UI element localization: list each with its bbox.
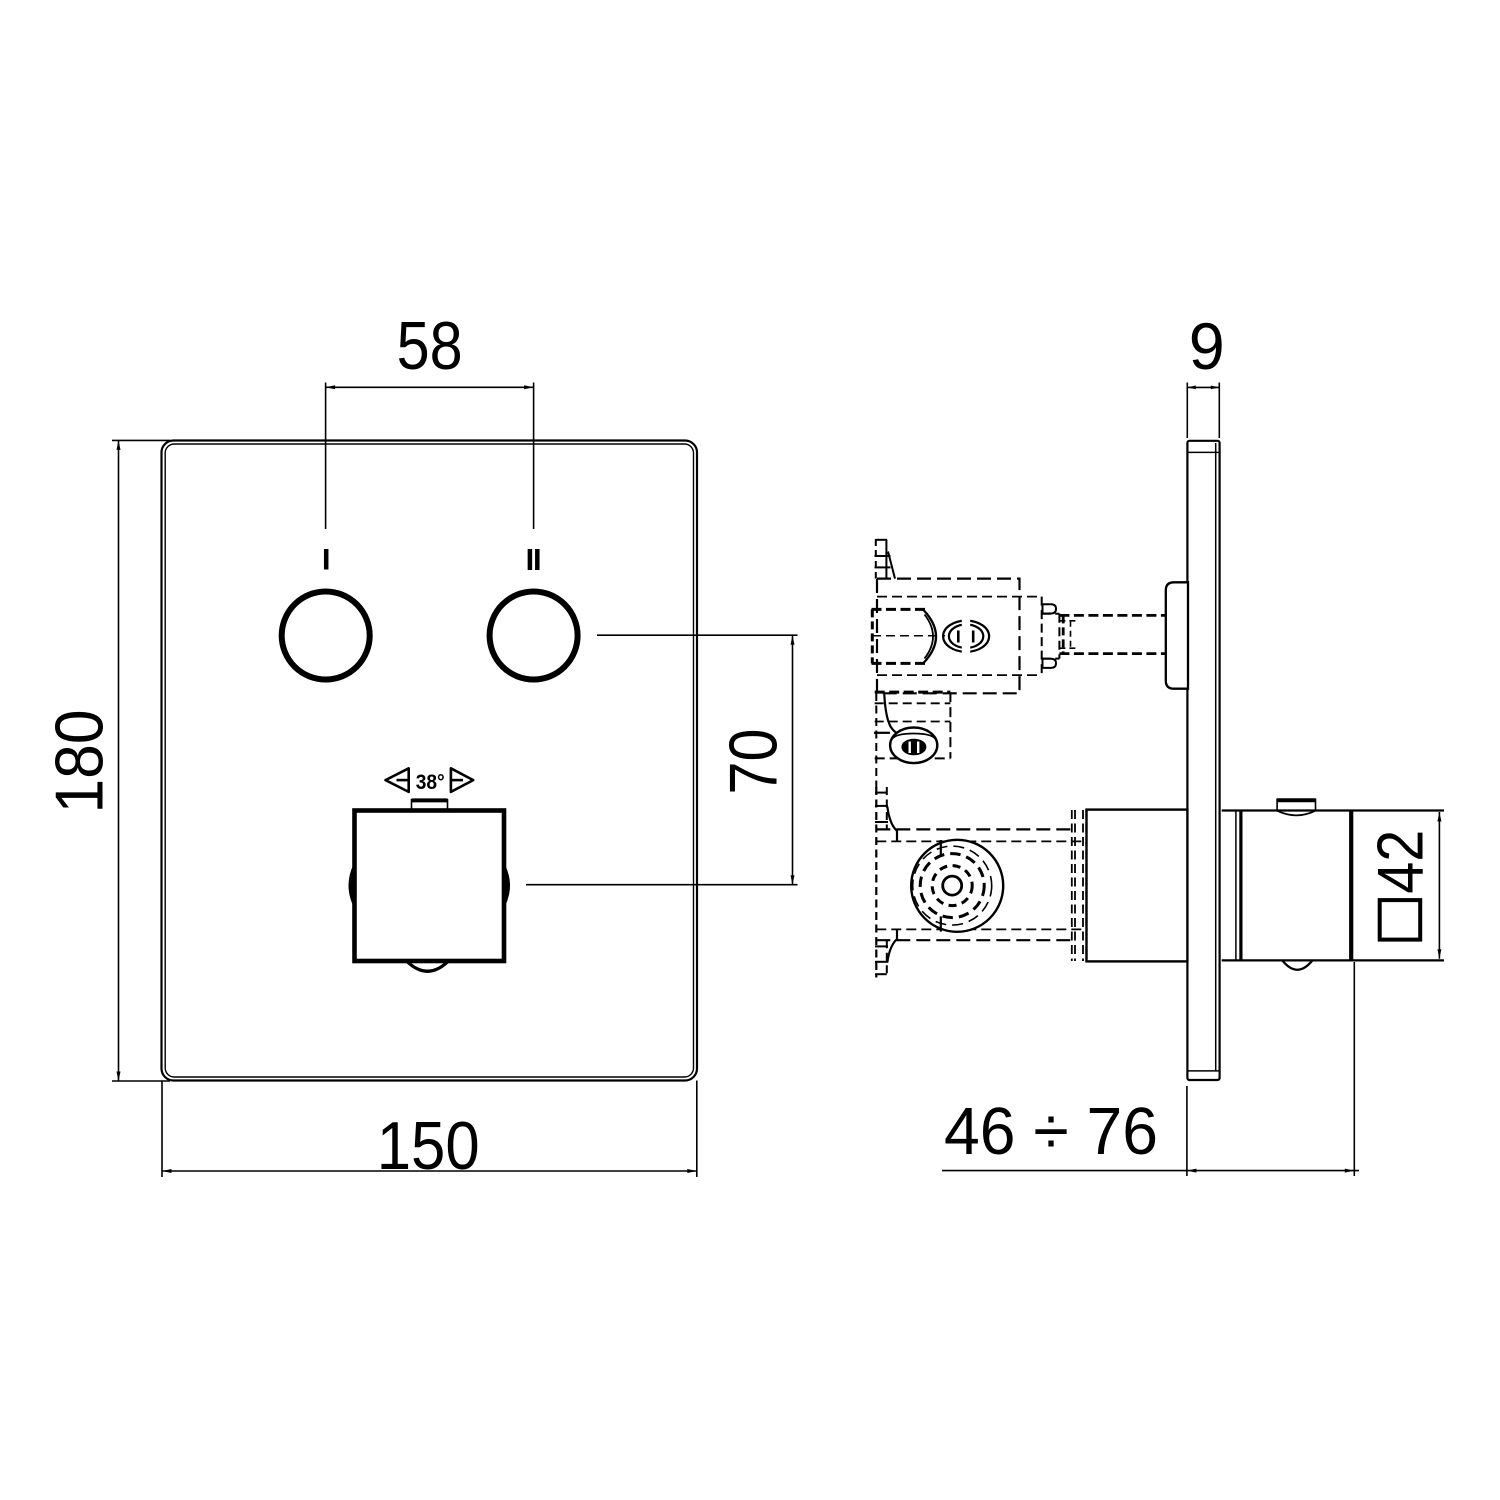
dimension 180 extension top [112,439,170,441]
cartridge centerline [872,635,945,637]
cartridge dome arcs [924,610,937,663]
wall plate side view [1187,441,1219,1080]
oval union fitting [943,621,989,652]
stem flange at plate [1166,582,1188,688]
svg-text:9: 9 [1189,309,1225,383]
dashed circle bold outer [920,854,984,918]
dimension 9 line [1187,386,1219,388]
valve dome [911,840,1003,932]
dimension 70 arrow bottom [791,875,795,885]
dimension 9 arrow right [1211,386,1220,390]
handle bottom ear arc [1282,961,1312,970]
knob circle II [490,592,578,680]
svg-text:180: 180 [41,710,117,814]
dimension 42 line [1438,812,1440,959]
label II ticks [528,549,533,570]
upper valve body inner bore lines [877,596,1042,598]
dimension 58 arrow left [326,385,336,389]
dimension 70 line [792,635,794,885]
upper mounting bracket [875,539,877,579]
svg-text:70: 70 [716,729,792,795]
dimension 180 line [118,440,120,1081]
dimension 58 extension line right [533,383,535,530]
dimension 9 extension lines [1186,383,1188,439]
handle front face [1349,812,1353,960]
bracket gusset bottom [887,929,897,962]
38 degree marker left triangle [386,768,409,792]
interface solid tab bottom [1043,659,1057,668]
union nut [890,728,937,764]
handle bottom edge + 42 extension [1222,959,1444,961]
temperature knob bottom arc [407,961,449,971]
dimension 150 extension left [161,1081,163,1178]
bracket ear solid curve [884,695,896,733]
dimension 70 arrow top [791,635,795,645]
dimension 180 arrow top [117,440,121,450]
lower mounting bracket [875,693,877,790]
dimension 70 leader top from circle II [597,634,798,636]
dimension square symbol [1380,900,1421,940]
interface solid tab top [1043,604,1057,613]
38 degree marker right triangle [451,768,473,792]
elbow dashed box [875,691,951,694]
cartridge dashed box [872,608,927,611]
lower body inner bore lines [876,840,1086,842]
plate outer outline [162,441,698,1081]
bracket gusset top [887,807,897,842]
dimension 9 arrow left [1187,386,1196,390]
svg-text:38°: 38° [416,770,445,794]
knob circle I [282,592,370,680]
oval fitting ticks [957,631,960,643]
dome chord bottom segment [940,916,942,931]
svg-text:42: 42 [1363,830,1436,894]
svg-text:46 ÷ 76: 46 ÷ 76 [944,1094,1158,1169]
svg-text:58: 58 [397,308,463,384]
label I tick [324,549,329,570]
temperature knob right ear [504,865,509,907]
dimension 46-76 extension right [1353,962,1355,1176]
dimension 58 extension line left [325,383,327,530]
rough-in housing box [1087,810,1188,962]
oval fitting split gaps [962,618,970,630]
handle back lines [1235,812,1237,960]
dimension 46-76 line [942,1170,1359,1172]
dimension 70 leader bottom from square knob [526,884,798,886]
stepped interface dashed [1041,597,1043,676]
dimension 180 arrow bottom [117,1072,121,1082]
dimension 150 line [162,1170,697,1172]
lower body dashed outline [876,828,1074,830]
dimension 150 arrow left [162,1169,172,1173]
temperature knob top tab [412,798,448,802]
temperature knob square [355,811,505,962]
dimension 58 arrow right [524,385,534,389]
stem dashed lines [1059,614,1165,617]
center circle [943,876,962,895]
dimension 150 arrow right [687,1169,697,1173]
dimension 180 extension bottom [112,1080,170,1082]
temperature knob left ear [349,864,354,907]
dimension 150 extension right [696,1081,698,1178]
plate inner edge line [165,444,693,1077]
dimension 58 line [326,386,534,388]
upper valve body dashed outline [877,579,1020,694]
dashed circle bold inner [932,866,972,906]
dashed circle thin outer [913,846,992,925]
dome chord top segment [940,840,942,856]
interface dashed verticals [1071,810,1073,961]
dimension 46-76 extension left [1186,1086,1188,1176]
handle top button tab [1277,798,1315,802]
handle top edge + 42 extension [1222,809,1444,811]
svg-text:150: 150 [377,1108,480,1184]
